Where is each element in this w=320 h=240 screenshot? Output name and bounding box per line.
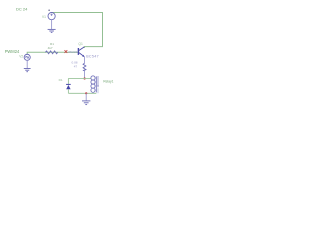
diode D1 top lead: [67, 78, 69, 84]
svg-text:BC547: BC547: [86, 54, 99, 58]
resistor R2 vertical: [83, 63, 86, 71]
stem V1 bottom: [51, 20, 53, 30]
wire V2 top to base: [27, 52, 78, 54]
wire V1 top to collector: [52, 13, 103, 49]
ground under V1: [48, 29, 56, 32]
lead to node: [84, 71, 86, 79]
relay armature contact: [97, 76, 99, 85]
svg-text:D1: D1: [59, 78, 63, 82]
transistor Q1: [78, 47, 84, 57]
ground bottom: [82, 101, 90, 105]
emitter lead: [84, 57, 86, 63]
junction node bottom: [85, 92, 87, 94]
svg-text:4k7: 4k7: [48, 46, 53, 50]
voltage source V1: [48, 13, 55, 20]
ground under V2: [24, 69, 31, 72]
error marker X on base wire: [65, 50, 68, 53]
svg-text:V2: V2: [19, 55, 23, 59]
stem to ground: [85, 93, 87, 101]
svg-text:Q1: Q1: [78, 42, 83, 46]
plus sign V1: [48, 9, 50, 11]
svg-text:DC 24: DC 24: [16, 6, 28, 11]
diode D1: [66, 83, 71, 85]
svg-text:V1: V1: [42, 15, 46, 19]
svg-text:47: 47: [74, 65, 78, 69]
source V2: [24, 54, 30, 60]
svg-text:Relay1: Relay1: [103, 80, 113, 84]
relay coil: [91, 76, 96, 93]
stem V2 bottom: [26, 60, 28, 68]
svg-text:2N222: 2N222: [68, 50, 77, 54]
wire top rail: [68, 77, 90, 79]
junction node top: [84, 77, 86, 79]
svg-text:PWM24: PWM24: [5, 49, 20, 54]
resistor R1: [45, 51, 57, 54]
wire bottom rail: [68, 92, 96, 94]
